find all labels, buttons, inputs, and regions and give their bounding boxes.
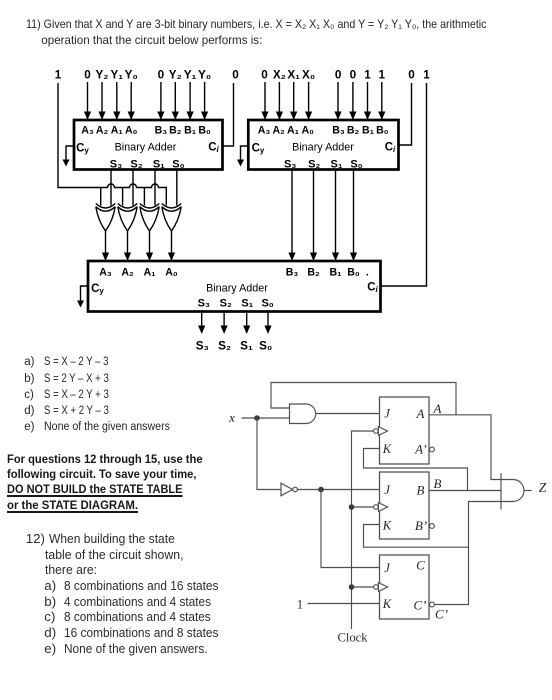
svg-text:S₁: S₁ bbox=[331, 159, 343, 171]
svg-text:Cy: Cy bbox=[91, 283, 104, 296]
svg-text:B’: B’ bbox=[415, 518, 427, 533]
feedback wire from A output to AND top input bbox=[271, 383, 456, 415]
svg-text:Clock: Clock bbox=[337, 631, 368, 645]
JK flip-flop C bbox=[374, 555, 435, 619]
svg-text:1: 1 bbox=[379, 69, 386, 82]
XOR gate X1 bbox=[96, 204, 115, 232]
JK flip-flop A bbox=[374, 397, 435, 464]
U2 carry-out Cy discard arrow bbox=[237, 146, 248, 167]
svg-text:B₃: B₃ bbox=[286, 267, 299, 279]
svg-text:B₀: B₀ bbox=[198, 125, 211, 137]
option 11e bbox=[24, 421, 34, 433]
option 11a bbox=[24, 356, 34, 368]
svg-text:B: B bbox=[417, 483, 425, 498]
label B on output wire bbox=[434, 476, 442, 491]
svg-text:B₃: B₃ bbox=[332, 125, 345, 137]
label A on output wire bbox=[433, 401, 442, 416]
svg-text:B₁: B₁ bbox=[329, 267, 342, 279]
svg-text:J: J bbox=[384, 407, 391, 421]
svg-text:Binary Adder: Binary Adder bbox=[115, 142, 177, 154]
svg-text:0: 0 bbox=[158, 69, 165, 82]
svg-text:B₁: B₁ bbox=[362, 125, 375, 137]
bold instruction line 1 bbox=[7, 452, 203, 466]
svg-text:S₃: S₃ bbox=[284, 159, 296, 171]
svg-text:A’: A’ bbox=[414, 442, 427, 457]
U3 carry-out Cy discard arrow bbox=[77, 286, 88, 308]
wire C-bar to K of FF B bbox=[364, 525, 469, 548]
svg-text:B: B bbox=[434, 476, 442, 491]
svg-text:A: A bbox=[433, 401, 442, 416]
svg-text:S₀: S₀ bbox=[261, 298, 273, 310]
output AND gate G3 (Z) bbox=[501, 473, 524, 510]
bold instruction line 2 bbox=[7, 467, 197, 481]
svg-text:J: J bbox=[384, 561, 391, 575]
option 12d bbox=[44, 625, 56, 640]
svg-text:1: 1 bbox=[364, 69, 371, 82]
svg-text:S₂: S₂ bbox=[218, 340, 231, 353]
svg-text:A₂: A₂ bbox=[121, 267, 134, 279]
svg-text:Y₀: Y₀ bbox=[198, 69, 211, 82]
svg-text:A₀: A₀ bbox=[125, 125, 138, 137]
junction on inverter output bbox=[318, 487, 324, 493]
svg-text:S₂: S₂ bbox=[308, 159, 320, 171]
XOR outputs to adder U3 A inputs bbox=[102, 231, 175, 261]
svg-text:S₀: S₀ bbox=[259, 340, 272, 353]
binary adder U2 bbox=[248, 120, 398, 171]
U2 carry-in wire (0) bbox=[399, 83, 412, 145]
node C-bar wire to output gate bbox=[434, 502, 501, 605]
JK flip-flop B bbox=[374, 472, 435, 539]
option 12e bbox=[44, 641, 56, 656]
svg-text:.: . bbox=[366, 267, 369, 279]
question 11 text line 2 bbox=[41, 34, 262, 47]
final sum labels S3..S0 bbox=[196, 340, 273, 353]
bold instruction line 3 underlined bbox=[7, 482, 182, 496]
svg-text:A: A bbox=[416, 406, 425, 421]
svg-text:0: 0 bbox=[408, 69, 415, 82]
XOR gate X2 bbox=[118, 204, 137, 232]
junction on x wire bbox=[254, 415, 260, 421]
U1 carry-out Cy discard arrow bbox=[63, 146, 75, 167]
svg-text:B₂: B₂ bbox=[307, 267, 320, 279]
svg-text:S₁: S₁ bbox=[240, 340, 253, 353]
binary adder U1 bbox=[74, 120, 223, 171]
question 12 line 3 bbox=[45, 562, 97, 577]
svg-text:0: 0 bbox=[232, 69, 239, 82]
svg-text:S₂: S₂ bbox=[220, 298, 232, 310]
wire x to AND gate bbox=[242, 417, 290, 419]
svg-text:S₃: S₃ bbox=[198, 298, 210, 310]
svg-text:S₀: S₀ bbox=[350, 159, 362, 171]
svg-text:A₂: A₂ bbox=[96, 125, 109, 137]
svg-text:Binary Adder: Binary Adder bbox=[206, 283, 268, 295]
svg-text:X₀: X₀ bbox=[302, 69, 315, 82]
svg-text:S₃: S₃ bbox=[110, 159, 122, 171]
svg-text:S₃: S₃ bbox=[196, 340, 209, 353]
svg-text:A₃: A₃ bbox=[99, 267, 112, 279]
svg-text:A₁: A₁ bbox=[287, 125, 300, 137]
svg-text:Z: Z bbox=[539, 480, 547, 495]
svg-text:Y₂: Y₂ bbox=[96, 69, 109, 82]
question 11 text line 1 bbox=[26, 18, 487, 31]
svg-text:A₁: A₁ bbox=[143, 267, 156, 279]
svg-text:Ci: Ci bbox=[367, 282, 378, 295]
AND gate G1 (feeds J of A) bbox=[290, 404, 316, 424]
U3 carry-in wire (1) bbox=[381, 83, 427, 286]
svg-text:C’: C’ bbox=[435, 607, 448, 622]
svg-text:S₂: S₂ bbox=[130, 159, 142, 171]
stubs from 1-rail to XOR left inputs bbox=[101, 188, 145, 206]
Clock label bbox=[337, 631, 368, 645]
svg-text:0: 0 bbox=[84, 69, 91, 82]
svg-text:B₀: B₀ bbox=[376, 125, 389, 137]
U1 carry-in wire (0) bbox=[223, 83, 234, 146]
option 11d bbox=[24, 405, 34, 417]
svg-text:A₃: A₃ bbox=[81, 125, 94, 137]
svg-text:C’: C’ bbox=[414, 598, 427, 613]
question 12 line 2 bbox=[45, 547, 183, 562]
svg-text:X₂: X₂ bbox=[273, 69, 286, 82]
wire 1 to K of FF C bbox=[308, 603, 380, 605]
wire x down to inverter bbox=[257, 418, 281, 490]
svg-text:1: 1 bbox=[423, 69, 430, 82]
svg-text:x: x bbox=[228, 410, 235, 425]
svg-text:A₀: A₀ bbox=[301, 125, 314, 137]
U2 sum outputs to U3 B inputs bbox=[288, 170, 357, 262]
svg-text:Cy: Cy bbox=[76, 143, 89, 156]
svg-text:B₃: B₃ bbox=[155, 125, 168, 137]
node: constant 1 rail feeding XOR gates bbox=[58, 83, 166, 206]
svg-text:0: 0 bbox=[350, 69, 357, 82]
svg-text:Binary Adder: Binary Adder bbox=[292, 142, 354, 154]
U1 sum outputs to XOR right inputs bbox=[111, 170, 177, 206]
U3 sum output arrows bbox=[198, 312, 272, 335]
svg-text:K: K bbox=[382, 442, 392, 456]
option 12b bbox=[44, 594, 56, 609]
wire B to K of FF A bbox=[364, 449, 468, 491]
svg-text:K: K bbox=[382, 597, 392, 611]
svg-text:Y₀: Y₀ bbox=[125, 69, 138, 82]
input arrows into adder U1 bbox=[84, 82, 208, 120]
option 11b bbox=[24, 373, 34, 385]
node B output wire to output gate bbox=[429, 490, 501, 492]
label Z bbox=[539, 480, 547, 495]
svg-text:1: 1 bbox=[297, 598, 303, 612]
svg-text:A₁: A₁ bbox=[111, 125, 124, 137]
label C-bar on output wire bbox=[435, 607, 448, 622]
svg-text:Ci: Ci bbox=[208, 142, 219, 155]
svg-text:A₃: A₃ bbox=[258, 125, 271, 137]
svg-text:A₂: A₂ bbox=[273, 125, 286, 137]
option 12a bbox=[44, 578, 56, 593]
svg-text:J: J bbox=[384, 483, 391, 497]
svg-text:0: 0 bbox=[261, 69, 268, 82]
svg-text:S₀: S₀ bbox=[172, 159, 184, 171]
question 12 line 1 bbox=[49, 531, 175, 546]
svg-text:S₁: S₁ bbox=[241, 298, 253, 310]
svg-text:Cy: Cy bbox=[252, 143, 265, 156]
svg-text:K: K bbox=[382, 519, 392, 533]
svg-text:B₂: B₂ bbox=[347, 125, 360, 137]
node A output wire to output gate bbox=[429, 415, 501, 480]
wire gate output to Z bbox=[524, 490, 532, 492]
svg-text:1: 1 bbox=[55, 69, 62, 82]
input constant/operand labels row bbox=[55, 69, 431, 82]
wire AND output to J of FF A bbox=[316, 413, 380, 415]
XOR gate X4 bbox=[162, 204, 181, 232]
bold instruction line 4 underlined bbox=[7, 498, 138, 512]
option 12c bbox=[44, 609, 55, 624]
clock distribution line bbox=[352, 431, 374, 629]
junction clock to FF B bbox=[349, 504, 355, 510]
junction clock to FF C bbox=[349, 584, 355, 590]
inverter G2 (x to J of B) bbox=[281, 483, 297, 496]
question 12 number bbox=[26, 531, 45, 546]
XOR gate X3 bbox=[140, 204, 159, 232]
svg-text:A₀: A₀ bbox=[165, 267, 178, 279]
svg-text:B₁: B₁ bbox=[184, 125, 197, 137]
svg-text:0: 0 bbox=[335, 69, 342, 82]
svg-text:B₂: B₂ bbox=[169, 125, 182, 137]
svg-text:C: C bbox=[416, 558, 425, 573]
svg-text:Ci: Ci bbox=[385, 142, 396, 155]
svg-text:Y₁: Y₁ bbox=[184, 69, 197, 82]
wire inverter output to J of FF B bbox=[298, 489, 380, 491]
svg-text:Y₁: Y₁ bbox=[110, 69, 123, 82]
binary adder U3 bbox=[88, 261, 381, 312]
svg-text:Y₂: Y₂ bbox=[169, 69, 182, 82]
svg-text:S₁: S₁ bbox=[153, 159, 165, 171]
constant 1 label for K of FF C bbox=[297, 598, 303, 612]
svg-text:B₀: B₀ bbox=[347, 267, 360, 279]
option 11c bbox=[24, 389, 34, 401]
input arrows into adder U2 bbox=[261, 82, 385, 120]
svg-text:X₁: X₁ bbox=[287, 69, 300, 82]
wire down to J of FF C bbox=[321, 490, 380, 568]
